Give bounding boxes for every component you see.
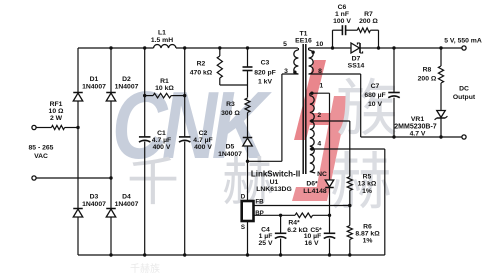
resistor R5 [347, 121, 377, 206]
svg-text:D5: D5 [226, 144, 235, 151]
svg-text:R4*: R4* [288, 220, 300, 227]
svg-text:R2: R2 [197, 60, 206, 67]
svg-text:400 V: 400 V [153, 144, 171, 151]
svg-text:3: 3 [284, 68, 288, 75]
output terminal positive [444, 38, 482, 50]
wire pin 4 [310, 141, 385, 151]
transformer T1 bias winding [310, 93, 315, 173]
diode D6 [303, 93, 333, 215]
transformer T1 secondary [309, 41, 361, 75]
svg-text:1N4007: 1N4007 [82, 201, 106, 208]
resistor R3 [221, 85, 250, 138]
svg-text:U1: U1 [270, 179, 279, 186]
svg-text:470 kΩ: 470 kΩ [190, 70, 213, 77]
svg-text:SS14: SS14 [348, 63, 365, 70]
svg-text:4.7 µF: 4.7 µF [152, 137, 171, 144]
svg-text:820 pF: 820 pF [254, 69, 276, 76]
svg-text:D1: D1 [90, 76, 99, 83]
zener VR1 [394, 83, 447, 138]
AC input label [29, 145, 54, 161]
svg-text:EE16: EE16 [295, 38, 312, 45]
svg-text:4.7 µF: 4.7 µF [193, 137, 212, 144]
wire pin 2 [310, 112, 350, 123]
svg-text:4: 4 [317, 141, 321, 148]
svg-text:1 nF: 1 nF [335, 11, 349, 18]
svg-text:族: 族 [336, 75, 398, 144]
svg-text:Output: Output [453, 94, 476, 101]
svg-text:1 µF: 1 µF [259, 233, 273, 240]
op U1 LNK613DG body [241, 193, 264, 231]
capacitor C3 [243, 48, 276, 85]
svg-text:D6*: D6* [306, 181, 318, 188]
svg-text:16 V: 16 V [305, 240, 319, 247]
svg-text:R7: R7 [364, 11, 373, 18]
svg-text:C2: C2 [199, 130, 208, 137]
resistor R6 [347, 206, 380, 256]
svg-text:FB: FB [255, 198, 264, 205]
wire C2 column [183, 48, 186, 255]
svg-text:1%: 1% [362, 188, 372, 195]
svg-text:2 W: 2 W [50, 115, 63, 122]
resistor R4 [287, 213, 331, 234]
output terminal negative [462, 135, 466, 139]
capacitor C6 [333, 4, 358, 48]
svg-text:R3: R3 [226, 101, 235, 108]
svg-text:10 kΩ: 10 kΩ [155, 85, 174, 92]
svg-text:DC: DC [459, 86, 469, 93]
svg-text:200 Ω: 200 Ω [359, 18, 378, 25]
wire input N to bridge node [36, 176, 113, 179]
transformer T1 core [303, 44, 306, 174]
AC input terminal L [32, 125, 36, 129]
svg-text:C1: C1 [157, 130, 166, 137]
svg-text:VR1: VR1 [411, 116, 424, 123]
label NC [317, 171, 327, 178]
svg-text:C3: C3 [261, 60, 270, 67]
diode D3 [73, 194, 106, 218]
transformer T1 primary [282, 41, 299, 75]
wire bridge left leg [77, 48, 79, 255]
svg-text:NC: NC [317, 171, 327, 178]
capacitor C7 [364, 48, 399, 137]
svg-text:LL4148: LL4148 [303, 188, 327, 195]
svg-text:C6: C6 [338, 4, 347, 11]
svg-text:千赫族: 千赫族 [130, 262, 160, 273]
svg-text:D2: D2 [122, 76, 131, 83]
svg-text:1: 1 [319, 83, 323, 90]
svg-text:L1: L1 [158, 30, 166, 37]
svg-text:680 µF: 680 µF [364, 92, 385, 99]
label DC Output [453, 86, 476, 102]
svg-text:400 V: 400 V [194, 144, 212, 151]
wire R2 to C3 node [220, 84, 248, 86]
svg-text:5: 5 [283, 41, 287, 48]
svg-text:T1: T1 [300, 31, 308, 38]
svg-text:1N4007: 1N4007 [218, 151, 242, 158]
wire secondary top rail [309, 46, 462, 49]
wire pin 1 [310, 83, 330, 95]
diode D2 [106, 76, 138, 101]
inductor L1 [151, 30, 176, 49]
wire drain node to pin3 riser [248, 74, 282, 161]
wire FB line [254, 204, 352, 207]
svg-text:1N4007: 1N4007 [115, 201, 139, 208]
diode D5 [218, 138, 252, 159]
wire BP line [254, 214, 295, 217]
wire bias return [384, 149, 386, 255]
resistor R8 [418, 48, 444, 83]
diode D7 [348, 43, 365, 70]
svg-text:D: D [241, 193, 246, 200]
svg-text:RF1: RF1 [50, 101, 63, 108]
svg-text:2: 2 [317, 112, 321, 119]
svg-text:C7: C7 [371, 83, 380, 90]
capacitor C4 [259, 215, 287, 255]
resistor R7 [357, 11, 378, 48]
svg-text:D4: D4 [122, 194, 131, 201]
diode D1 [73, 76, 106, 101]
svg-text:300 Ω: 300 Ω [221, 110, 240, 117]
svg-text:25 V: 25 V [259, 240, 273, 247]
transformer T1 label [295, 31, 312, 45]
resistor RF1 [49, 101, 65, 130]
wire D5 to drain node [246, 146, 249, 163]
resistor R2 [190, 48, 223, 85]
svg-text:1 kV: 1 kV [258, 78, 272, 85]
svg-text:D3: D3 [90, 194, 99, 201]
svg-text:1N4007: 1N4007 [82, 84, 106, 91]
wire secondary bottom rail [361, 74, 462, 139]
svg-text:1N4007: 1N4007 [115, 84, 139, 91]
svg-text:8: 8 [318, 68, 322, 75]
capacitor C2 [179, 130, 213, 151]
svg-text:10 Ω: 10 Ω [49, 108, 64, 115]
svg-text:200 Ω: 200 Ω [418, 75, 437, 82]
svg-text:10: 10 [316, 41, 324, 48]
svg-text:S: S [241, 224, 245, 231]
capacitor C5 [304, 215, 336, 255]
svg-text:10 V: 10 V [368, 101, 382, 108]
svg-text:R6: R6 [363, 223, 372, 230]
svg-text:R5: R5 [363, 173, 372, 180]
svg-text:R8: R8 [423, 66, 432, 73]
svg-text:R1: R1 [160, 78, 169, 85]
svg-text:LNK613DG: LNK613DG [256, 186, 292, 193]
wire drain to U1 [247, 161, 249, 201]
capacitor C1 [139, 130, 171, 151]
wire U1 source to ground [247, 221, 249, 255]
svg-text:D7: D7 [352, 55, 361, 62]
wire C1 column [143, 48, 146, 255]
wire input L to bridge [36, 127, 51, 129]
wire top rail [78, 46, 298, 49]
diode D4 [106, 194, 138, 218]
svg-text:100 V: 100 V [333, 18, 351, 25]
wire RF1 to bridge node [65, 126, 80, 129]
svg-text:1.5 mH: 1.5 mH [151, 37, 173, 44]
svg-text:10 µF: 10 µF [304, 233, 322, 240]
svg-text:VAC: VAC [34, 153, 48, 160]
svg-text:85 - 265: 85 - 265 [29, 145, 54, 152]
AC input terminal N [32, 176, 36, 180]
wire bottom rail [78, 253, 385, 256]
wire bridge right leg [109, 46, 112, 256]
svg-text:13 kΩ: 13 kΩ [358, 181, 377, 188]
svg-text:LinkSwitch-II: LinkSwitch-II [251, 170, 300, 179]
svg-text:2MM5230B-7: 2MM5230B-7 [394, 124, 437, 131]
svg-text:1%: 1% [363, 237, 373, 244]
label U1 name [251, 170, 300, 194]
svg-text:5 V, 550 mA: 5 V, 550 mA [444, 38, 482, 45]
resistor R1 [145, 78, 185, 98]
